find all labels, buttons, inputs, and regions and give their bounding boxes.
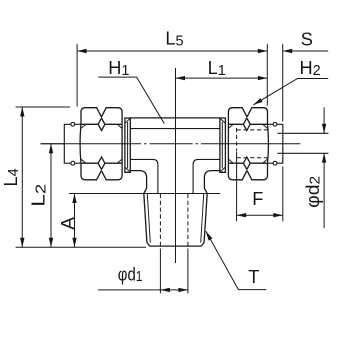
phi-d1 dimension line [98, 289, 160, 291]
left nut diamond bottom [98, 157, 105, 169]
T leader [206, 231, 267, 289]
left nut bottom band row line [81, 162, 122, 164]
male thread bottom edge [150, 245, 202, 247]
left nut diamond top [98, 118, 105, 130]
left tube bracket [64, 124, 81, 163]
hidden bore line right in thread [187, 194, 189, 246]
left bracket circle bottom [71, 161, 75, 165]
right tube outline [278, 133, 329, 153]
hidden tube line top inside right nut [237, 129, 270, 131]
left collar chamfer top [125, 118, 130, 123]
L4 dimension line [21, 107, 23, 247]
svg-text:S: S [301, 29, 313, 49]
hidden tube end inside right nut [236, 128, 238, 152]
body top face line [130, 128, 220, 130]
svg-text:F: F [252, 189, 263, 209]
L4 top extension line [16, 106, 70, 108]
F right extension line [282, 167, 284, 222]
svg-text:T: T [248, 267, 259, 287]
right nut bottom band [228, 163, 267, 180]
left nut bottom band [81, 163, 122, 180]
right nut barrel chamfers [229, 125, 268, 164]
svg-text:φd1: φd1 [118, 264, 143, 285]
phi-d2 dimension line lower [323, 153, 325, 228]
right nut diamond top [243, 118, 250, 130]
right collar [220, 118, 226, 172]
left nut barrel [80, 124, 122, 163]
body bottom outline left with fillet to outer branch wall [130, 171, 146, 194]
left collar [125, 118, 130, 172]
phi-d1 extension line right [187, 249, 189, 294]
right collar mid line [221, 122, 223, 168]
hidden bore line left in thread [159, 194, 161, 246]
L2 extension (centerline left) [41, 143, 64, 145]
A dimension line [74, 194, 76, 248]
phi-d1 extension line left [159, 249, 161, 294]
F left extension line [236, 152, 238, 221]
F dimension line [237, 214, 283, 216]
svg-text:A: A [57, 217, 79, 230]
body bottom face line left with fillet to inner branch wall [130, 159, 158, 193]
phi-d2 dimension line upper [323, 107, 325, 133]
left nut barrel chamfers [81, 125, 122, 164]
left nut top band [81, 108, 122, 125]
right nut top band row line [228, 123, 267, 125]
right tube bracket [268, 124, 283, 163]
male thread root line left [147, 194, 150, 243]
phi-d1 dimension arrows [160, 289, 188, 291]
A top extension line [69, 193, 220, 195]
L1 dimension line [176, 77, 268, 79]
right bracket circle bottom [273, 161, 277, 165]
H1 leader [98, 77, 164, 124]
left collar mid line [127, 122, 129, 168]
male thread root line right [201, 194, 204, 243]
L5/S/L1 right extension line [266, 44, 268, 106]
right nut bottom band row line [228, 162, 267, 164]
S dimension line tail [283, 50, 329, 52]
left collar chamfer bottom [125, 167, 130, 172]
right bracket circle top [273, 122, 277, 126]
right nut barrel [228, 124, 268, 163]
horizontal centerline [41, 143, 301, 145]
male thread taper right edge [201, 194, 207, 247]
H2 leader [253, 79, 328, 105]
L5 left extension line [76, 44, 78, 107]
bottom baseline extension [16, 246, 146, 248]
body bottom outline right with fillet [204, 171, 220, 194]
L5 dimension line [77, 50, 267, 52]
right collar chamfer top [220, 118, 226, 123]
right nut top band [228, 108, 267, 125]
right nut diamond bottom [243, 157, 250, 169]
S right extension line [282, 44, 284, 122]
male thread taper left edge [144, 194, 150, 247]
body top outline [130, 117, 220, 119]
left nut top band row line [81, 123, 122, 125]
right collar chamfer bottom [220, 167, 226, 172]
body bottom face line right with fillet [193, 159, 220, 193]
left bracket circle top [71, 122, 75, 126]
hidden tube line bottom inside right nut [237, 157, 270, 159]
L2 dimension line [50, 144, 52, 247]
dimension graphics [16, 44, 329, 293]
vertical centerline / L1 extension [175, 68, 177, 263]
